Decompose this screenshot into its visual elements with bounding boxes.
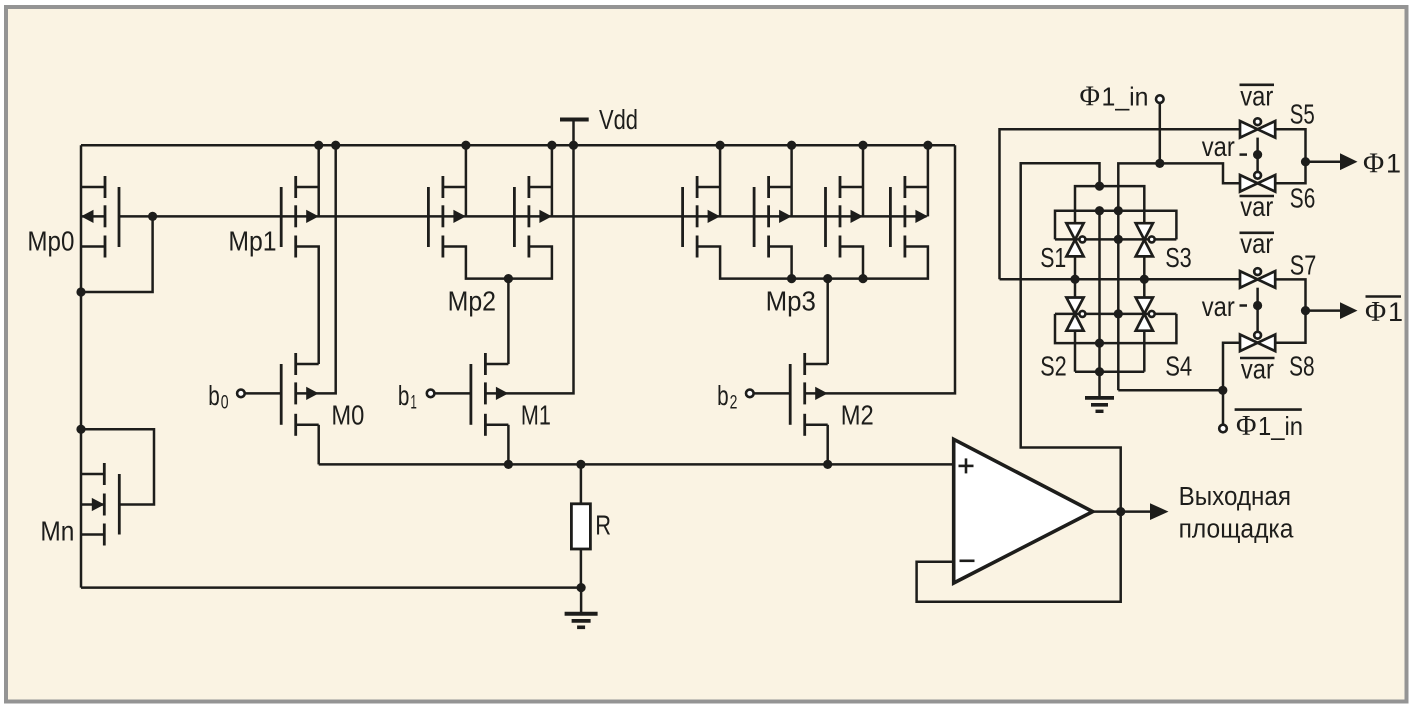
svg-text:M1: M1 xyxy=(521,400,551,431)
svg-text:Выходная: Выходная xyxy=(1179,483,1291,511)
terminal b1 xyxy=(427,390,435,398)
wire: left main vertical (Mp0/Mn terminal line) xyxy=(80,145,83,587)
wire: S2/S4 bottoms to ground column xyxy=(1075,370,1144,373)
svg-text:M0: M0 xyxy=(331,400,364,431)
switch S5 (transmission gate) xyxy=(1240,121,1275,138)
power Vdd symbol bar xyxy=(560,118,589,122)
wire: S8 right to phi1-bar node xyxy=(1274,311,1305,343)
terminal phi1_in xyxy=(1156,95,1164,103)
svg-text:Φ: Φ xyxy=(1363,148,1384,180)
wire: op-amp output xyxy=(1093,510,1152,513)
switch S6 xyxy=(1240,175,1275,192)
wire: S1-S2 column xyxy=(1074,256,1077,372)
svg-text:R: R xyxy=(595,510,611,541)
svg-text:S6: S6 xyxy=(1290,182,1316,213)
svg-text:b: b xyxy=(398,380,410,411)
op-amp U1 xyxy=(954,439,1093,583)
switch S4 xyxy=(1136,298,1153,331)
svg-text:var: var xyxy=(1202,291,1235,322)
svg-text:1: 1 xyxy=(1386,149,1401,179)
op-amp minus sign xyxy=(960,559,975,562)
svg-text:S7: S7 xyxy=(1290,250,1317,281)
switch S8 xyxy=(1240,335,1275,352)
switch S3 xyxy=(1136,223,1153,256)
terminal b0 xyxy=(237,390,245,398)
wire: S3-S4 column xyxy=(1143,256,1146,372)
wire: M2 gate lead xyxy=(754,392,790,395)
wire: op-amp negative feedback loop xyxy=(917,512,1121,602)
svg-text:2: 2 xyxy=(730,392,738,414)
wire: phi1_in net (vertical + horizontals + jog to S6) xyxy=(1118,104,1241,424)
svg-text:b: b xyxy=(208,380,220,411)
svg-text:Φ: Φ xyxy=(1080,81,1100,112)
wire: summing output line to op-amp xyxy=(319,463,954,466)
svg-text:S3: S3 xyxy=(1165,242,1192,273)
wire: Mn gate feedback xyxy=(81,429,154,504)
wire: mid line from left loop to S7 xyxy=(1000,129,1241,279)
wire: gate bias line (current mirror) xyxy=(119,215,927,218)
svg-text:Mp1: Mp1 xyxy=(228,226,276,257)
wire: M1 gate lead xyxy=(435,392,471,395)
transistor Mp1 xyxy=(281,145,319,257)
svg-text:Mn: Mn xyxy=(40,516,74,547)
wire: rail right end down to M2 bulk xyxy=(805,145,955,393)
svg-text:1_in: 1_in xyxy=(1102,81,1149,111)
transistor Mn (left-facing NMOS, diode connected) xyxy=(81,463,119,546)
transistor M2 with input b2 xyxy=(790,353,828,436)
transistor M0 with input b0 xyxy=(281,353,319,436)
output arrowhead xyxy=(1150,503,1169,520)
wire: M0 gate lead xyxy=(246,392,282,395)
svg-text:var: var xyxy=(1202,131,1235,162)
svg-text:Φ: Φ xyxy=(1236,411,1256,442)
transistor M1 with input b1 xyxy=(471,353,509,436)
svg-text:Mp3: Mp3 xyxy=(766,285,816,316)
wire: S7 right to phi1-bar node xyxy=(1274,279,1305,310)
wire: upper switch box (S1/S3) xyxy=(1055,211,1176,240)
transistor Mp3 (quad) xyxy=(683,145,721,257)
svg-text:площадка: площадка xyxy=(1179,515,1295,543)
wire: M1 source down to output line xyxy=(507,425,510,465)
svg-text:b: b xyxy=(717,380,729,411)
wire+arrow: phi1 output xyxy=(1306,160,1343,163)
resistor R xyxy=(580,464,583,503)
switch S7 xyxy=(1240,271,1275,288)
junction dots: Mp2/Mp3 source lines xyxy=(504,274,868,283)
svg-text:1: 1 xyxy=(1388,297,1403,327)
wire: Mp2 common source line and tap to M1 xyxy=(443,247,552,365)
switch S1 (varactor pair) xyxy=(1066,223,1083,256)
junction dots: mirror bias and left column xyxy=(76,212,157,434)
op-amp plus sign xyxy=(959,458,974,473)
svg-text:M2: M2 xyxy=(841,400,874,431)
svg-text:0: 0 xyxy=(221,392,229,414)
junction dots: switch network xyxy=(1070,150,1310,395)
junction dot: op-amp output xyxy=(1116,507,1125,516)
wire: S5/S6 control link xyxy=(1256,138,1259,171)
transistor Mp0 (left-facing PMOS, diode connected) xyxy=(81,176,119,258)
transistor Mp2 (pair) xyxy=(428,145,466,257)
terminal b2 xyxy=(746,390,754,398)
svg-text:S4: S4 xyxy=(1165,351,1192,382)
wire: S7/S8 control link xyxy=(1256,288,1259,331)
wire: bottom ground line xyxy=(81,586,581,589)
wire: Mp3 common source line and tap to M2 xyxy=(697,247,928,365)
svg-text:Φ: Φ xyxy=(1365,296,1386,328)
svg-text:Vdd: Vdd xyxy=(599,104,638,135)
wire: center ground vertical xyxy=(1098,211,1101,398)
wire: S5 right to phi1 node xyxy=(1274,129,1305,161)
junction dots: Vdd rail xyxy=(314,141,932,150)
wire: S6 right to phi1 node xyxy=(1274,162,1305,184)
wire: M2 source down to output line xyxy=(826,425,829,465)
switch S2 xyxy=(1066,298,1083,331)
ground symbol of switch block xyxy=(1085,398,1114,411)
wire: lower switch box (S2/S4) xyxy=(1055,314,1176,343)
terminal phi1_in inverted xyxy=(1219,425,1227,433)
svg-text:S5: S5 xyxy=(1290,98,1315,129)
svg-text:S8: S8 xyxy=(1289,351,1315,382)
wire: Mp1 source stub down to M0 drain xyxy=(296,247,319,365)
svg-text:1_in: 1_in xyxy=(1258,411,1303,441)
wire: S1/S3 top connection line xyxy=(1075,186,1144,223)
wire: Mp0 diode feedback (gate to lower node) xyxy=(81,216,153,292)
junction dots: output summing line and ground node xyxy=(504,460,833,592)
svg-text:S1: S1 xyxy=(1040,242,1066,273)
wire+arrow: phi1-bar output xyxy=(1306,309,1343,312)
wire: Vdd drop / M1 bulk wire xyxy=(485,120,573,394)
ground under R xyxy=(565,588,598,628)
wire: M0 source down to output line xyxy=(317,425,320,465)
wire: Vdd rail xyxy=(81,144,955,147)
svg-text:Mp0: Mp0 xyxy=(27,226,74,257)
svg-text:S2: S2 xyxy=(1040,351,1067,382)
svg-text:1: 1 xyxy=(410,392,417,414)
wire: op-amp output up to switch network xyxy=(1021,163,1121,511)
wire: M0 bulk wire from rail xyxy=(296,145,336,393)
svg-text:Mp2: Mp2 xyxy=(448,285,496,316)
